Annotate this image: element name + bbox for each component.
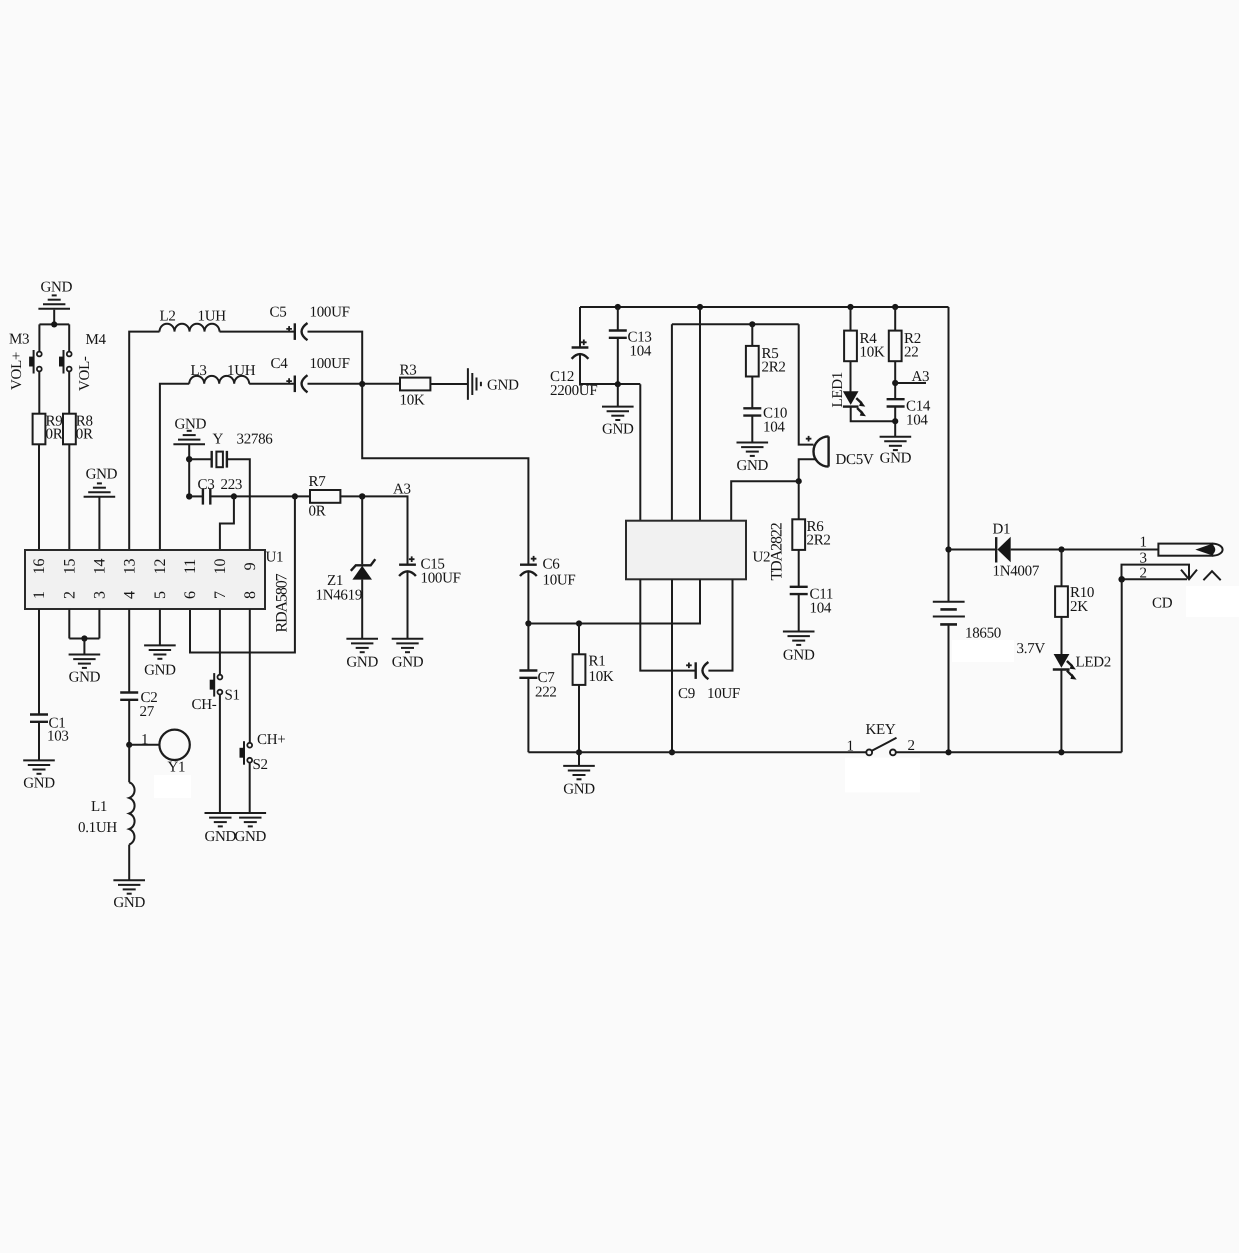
pushbutton S2 [240, 732, 286, 773]
svg-text:22: 22 [904, 345, 918, 361]
svg-text:100UF: 100UF [310, 305, 350, 321]
antenna Y1 [159, 730, 189, 776]
pin numbers top row [31, 559, 259, 575]
svg-text:10K: 10K [589, 669, 614, 685]
svg-text:2: 2 [908, 738, 915, 754]
wire R8 to pin15 [68, 444, 70, 550]
ground L1 [113, 880, 145, 911]
ground C1 [23, 760, 55, 791]
inductor L1 [78, 782, 135, 844]
resistor R6 [792, 519, 830, 550]
wire M3 to R9 [38, 372, 40, 414]
svg-text:2K: 2K [1070, 599, 1088, 615]
svg-text:A3: A3 [912, 369, 930, 385]
wire R10 to LED2 [1061, 617, 1063, 654]
node junction gnd/M3/M4 [51, 321, 57, 327]
node C13 top [615, 304, 621, 310]
wire DC5V minus pin down [799, 459, 817, 481]
svg-text:5: 5 [152, 591, 169, 599]
led LED1 [830, 372, 866, 416]
wire rail to R4 [850, 307, 852, 331]
wire gnd to M3/M4 tops [39, 310, 69, 352]
svg-text:100UF: 100UF [310, 356, 350, 372]
ground C11 [783, 632, 815, 664]
wire VCC top rail [580, 306, 949, 308]
svg-text:KEY: KEY [866, 722, 896, 738]
svg-text:2R2: 2R2 [807, 533, 831, 549]
wire S2 to ground [249, 763, 251, 813]
node C4/C5/R3 junction [359, 381, 365, 387]
node C13 bottom junction [615, 381, 621, 387]
ground above pin14 [84, 467, 118, 497]
wire R1 top feed [578, 624, 580, 655]
ground S2 [234, 813, 266, 845]
svg-text:CH+: CH+ [257, 732, 285, 748]
wire S1 to ground [219, 695, 221, 813]
capacitor C13 [609, 330, 652, 360]
led LED2 [1017, 641, 1111, 680]
capacitor C5 [270, 305, 350, 341]
svg-text:M3: M3 [9, 332, 29, 348]
svg-text:S1: S1 [225, 688, 240, 704]
svg-text:1UH: 1UH [198, 309, 227, 325]
pushbutton M4 [59, 332, 107, 391]
ground C13 [602, 407, 634, 438]
wire R2 to C14 [894, 361, 896, 399]
capacitor C12 [550, 340, 597, 400]
ground pin5 [144, 645, 176, 678]
svg-text:GND: GND [113, 895, 145, 911]
jack CD sleeve [1122, 565, 1221, 612]
wire C11 to ground [798, 594, 800, 631]
wire C3 to R7 line [210, 495, 310, 497]
svg-text:3: 3 [92, 591, 109, 599]
svg-text:2R2: 2R2 [762, 360, 786, 376]
wire C4 to node and R3 [308, 383, 401, 385]
node A3 stub junction [892, 380, 898, 386]
svg-text:104: 104 [763, 420, 785, 436]
zener Z1 1N4619 [316, 559, 376, 603]
svg-text:222: 222 [535, 685, 557, 701]
wire crystal to pin9 [227, 459, 250, 550]
node C6/C7 junction [525, 620, 531, 626]
svg-text:GND: GND [736, 458, 768, 474]
wire pin8 to S2 [249, 609, 251, 743]
svg-text:U2: U2 [753, 550, 771, 566]
node Z1 top junction [359, 493, 365, 499]
resistor R2 [889, 331, 921, 362]
wire audio node down to C6 column [362, 384, 528, 564]
svg-text:LED2: LED2 [1076, 655, 1111, 671]
connector DC5V [806, 436, 874, 468]
node bracket junction [292, 493, 298, 499]
svg-text:10: 10 [212, 559, 229, 575]
svg-text:C4: C4 [271, 356, 289, 372]
wire junction to ground [83, 639, 85, 655]
svg-text:RDA5807: RDA5807 [274, 573, 291, 632]
wire D1 anode feed [949, 549, 996, 551]
wire C5 to C4 output node [308, 332, 363, 384]
node R4 top [847, 304, 853, 310]
svg-text:VOL-: VOL- [77, 356, 93, 391]
wire junction to R10 [1061, 550, 1063, 587]
wire node to ground [578, 752, 580, 766]
svg-text:9: 9 [242, 562, 259, 570]
svg-text:GND: GND [234, 829, 266, 845]
svg-text:U1: U1 [266, 550, 284, 566]
svg-text:2: 2 [1140, 566, 1147, 582]
svg-text:L1: L1 [91, 799, 107, 815]
svg-text:GND: GND [69, 670, 101, 686]
svg-text:0R: 0R [76, 427, 93, 443]
svg-text:C3: C3 [198, 477, 215, 493]
pin numbers bottom row [31, 591, 259, 599]
capacitor C14 [887, 399, 931, 429]
svg-text:M4: M4 [86, 332, 107, 348]
ground S1 [204, 813, 236, 845]
wire pin14 gnd stem [98, 498, 100, 551]
svg-text:0R: 0R [46, 427, 63, 443]
wire pin6 bracket [190, 496, 295, 652]
wire C9 right to TDA pin [708, 579, 732, 670]
node R1 top [576, 620, 582, 626]
svg-text:13: 13 [121, 559, 138, 575]
svg-text:GND: GND [880, 451, 912, 467]
wire D1 to jack pin1 [1011, 549, 1159, 551]
svg-text:GND: GND [346, 655, 378, 671]
wire C1 to ground [38, 722, 40, 761]
svg-text:1: 1 [1140, 535, 1147, 551]
wire L3 to C4 [249, 383, 295, 385]
svg-text:15: 15 [62, 559, 79, 575]
capacitor C15 [399, 556, 461, 586]
capacitor C7 [519, 670, 556, 701]
node R1 bottom [576, 749, 582, 755]
svg-text:10K: 10K [400, 393, 425, 409]
ground C14 [880, 437, 912, 467]
wire L2 to C5 [220, 331, 295, 333]
svg-text:2200UF: 2200UF [550, 383, 597, 399]
net label A3 stub [895, 382, 926, 384]
svg-text:100UF: 100UF [421, 571, 461, 587]
svg-text:GND: GND [204, 829, 236, 845]
IC U2 TDA2822 box [626, 521, 786, 581]
node TDA pin top [697, 304, 703, 310]
svg-text:10K: 10K [860, 345, 885, 361]
svg-text:D1: D1 [993, 522, 1011, 538]
wire bus corner down to TDA pin [639, 384, 641, 521]
svg-text:GND: GND [563, 782, 595, 798]
resistor R1 [573, 654, 614, 686]
node LED1/C14 junction [892, 418, 898, 424]
svg-text:GND: GND [23, 776, 55, 792]
ground C15 [392, 639, 424, 671]
white patch under 18650 [952, 640, 1014, 662]
wire M4 to R8 [68, 372, 70, 414]
svg-text:104: 104 [630, 344, 652, 360]
svg-text:1N4619: 1N4619 [316, 588, 363, 604]
svg-text:C6: C6 [543, 557, 561, 573]
inductor L2 [160, 309, 227, 332]
svg-text:27: 27 [140, 704, 155, 720]
wire pin7 to S1 [219, 609, 221, 675]
svg-text:10UF: 10UF [707, 686, 740, 702]
wire R6 to C11 [798, 550, 800, 586]
capacitor C4 [271, 356, 350, 392]
svg-text:L3: L3 [191, 363, 207, 379]
wire node to C3 [189, 495, 203, 497]
svg-text:CD: CD [1152, 596, 1173, 612]
svg-text:0.1UH: 0.1UH [78, 820, 117, 836]
resistor R5 [746, 346, 786, 377]
resistor R9 [33, 414, 63, 445]
node battery bottom [945, 749, 951, 755]
wire rail to R2 [894, 307, 896, 331]
node pin2/3 junction [81, 635, 87, 641]
capacitor C9 [678, 662, 740, 702]
wire pin13 up and L2 feed [129, 332, 159, 550]
svg-text:GND: GND [86, 467, 118, 483]
capacitor C6 [520, 556, 575, 589]
wire pin5 to ground [159, 609, 161, 645]
svg-text:11: 11 [182, 559, 199, 574]
svg-text:GND: GND [487, 378, 519, 394]
svg-text:C9: C9 [678, 686, 695, 702]
wire C3 node jog to pin10 [220, 496, 234, 550]
wire R5 to C10 [751, 377, 753, 408]
svg-text:16: 16 [31, 559, 48, 575]
svg-text:GND: GND [602, 422, 634, 438]
svg-text:C5: C5 [270, 305, 287, 321]
wire C2 to Y1 node [128, 700, 130, 745]
svg-text:GND: GND [41, 280, 73, 296]
svg-text:A3: A3 [393, 482, 411, 498]
node C3 right junction [231, 493, 237, 499]
wire TDA top pin from rail [699, 307, 701, 521]
wire pin2/pin3 join [69, 609, 99, 639]
ground Z1 [346, 639, 378, 671]
resistor R7 [309, 474, 341, 520]
wire R1 to bottom rail [578, 685, 580, 752]
wire C15 to ground [407, 572, 409, 639]
svg-text:L2: L2 [160, 309, 176, 325]
wire junction to R6 [798, 481, 800, 519]
svg-text:R3: R3 [400, 363, 417, 379]
wire junction to C7 [527, 624, 529, 671]
ground GND top-left [38, 280, 72, 309]
wire C13 to lower bus [617, 338, 619, 384]
wire junction to TDA pin [731, 481, 799, 521]
wire C7 to bottom rail [527, 678, 529, 753]
wire to DC5V plus pin [799, 324, 814, 444]
pushbutton S1 [192, 673, 240, 713]
svg-text:VOL+: VOL+ [9, 352, 25, 390]
capacitor C10 [743, 406, 787, 436]
wire node to L1 [128, 745, 130, 783]
wire pin4 to C2 [128, 609, 130, 692]
white patch right of Y1 [154, 775, 191, 798]
jack CD tip [1158, 544, 1222, 556]
svg-text:GND: GND [144, 663, 176, 679]
wire LED2 to bottom rail [1060, 670, 1062, 753]
capacitor C2 [120, 690, 157, 720]
svg-text:2: 2 [62, 591, 79, 599]
switch KEY [847, 722, 915, 755]
svg-text:4: 4 [121, 591, 138, 599]
resistor R10 [1055, 585, 1094, 617]
wire C6 to lower junction [527, 572, 529, 624]
svg-text:CH-: CH- [192, 697, 217, 713]
IC U1 RDA5807 box [25, 550, 291, 633]
wire node to Y1 [129, 744, 159, 746]
wire node to crystal [189, 458, 212, 460]
wire battery to bottom rail [948, 624, 950, 752]
node Y1 junction [126, 742, 132, 748]
node R10 top junction [1058, 546, 1064, 552]
svg-text:TDA2822: TDA2822 [769, 522, 786, 580]
svg-text:10UF: 10UF [543, 573, 576, 589]
svg-text:0R: 0R [309, 504, 326, 520]
node crystal left junction [186, 456, 192, 462]
node LED2 bottom [1058, 749, 1064, 755]
capacitor C3 [198, 477, 243, 505]
capacitor C11 [790, 587, 833, 617]
svg-text:GND: GND [392, 655, 424, 671]
ground sideways at R3 [468, 368, 519, 400]
svg-text:R7: R7 [309, 474, 327, 490]
wire C14 to ground [894, 407, 896, 437]
svg-text:14: 14 [92, 559, 109, 575]
svg-text:1N4007: 1N4007 [993, 564, 1040, 580]
wire jack sleeve to bottom rail [1121, 579, 1123, 752]
svg-text:8: 8 [242, 591, 259, 599]
svg-text:R1: R1 [589, 654, 606, 670]
wire C12 to lower bus [580, 354, 640, 384]
svg-text:103: 103 [47, 729, 69, 745]
svg-text:12: 12 [152, 559, 169, 575]
wire node down to Z1 [361, 496, 363, 564]
svg-text:Y1: Y1 [168, 760, 186, 776]
wire R4 to LED1 [850, 361, 852, 391]
pushbutton M3 [9, 332, 42, 391]
svg-text:3.7V: 3.7V [1017, 641, 1046, 657]
resistor R3 [400, 363, 431, 409]
svg-text:7: 7 [212, 591, 229, 599]
svg-text:6: 6 [182, 591, 199, 599]
node R6 top junction [796, 478, 802, 484]
node R2 top [892, 304, 898, 310]
wire bottom rail [528, 751, 1121, 753]
wire gnd stem to crystal node [188, 445, 190, 459]
svg-text:104: 104 [906, 413, 928, 429]
wire TDA bottom pin to C9 left [640, 579, 695, 670]
resistor R4 [844, 331, 885, 362]
svg-text:1UH: 1UH [227, 363, 256, 379]
node R5 top [749, 321, 755, 327]
svg-text:32786: 32786 [237, 432, 274, 448]
wire rail to C12 [579, 307, 581, 347]
wire crystal node down to C3 [188, 459, 190, 496]
wire Z1 to ground [361, 580, 363, 639]
node jack sleeve junction [1118, 576, 1125, 583]
ground pins 2-3 [69, 655, 101, 686]
ground C10 [736, 443, 768, 475]
wire node to R5 [751, 324, 753, 346]
ground above crystal [173, 417, 206, 445]
svg-text:S2: S2 [253, 757, 268, 773]
wire R3 to ground [430, 383, 468, 385]
svg-text:104: 104 [810, 601, 832, 617]
svg-text:GND: GND [175, 417, 207, 433]
capacitor C1 [30, 715, 69, 745]
battery 18650 [933, 602, 1001, 642]
wire junction to ground [617, 384, 619, 406]
svg-text:1: 1 [847, 739, 854, 755]
node TDA gnd pin on rail [669, 749, 675, 755]
wire rail to C13 [617, 307, 619, 330]
wire VCC rail right corner down [948, 307, 950, 601]
resistor R8 [63, 414, 93, 445]
white patch under KEY [845, 758, 920, 793]
wire pin1 to C1 [38, 609, 40, 714]
svg-text:18650: 18650 [965, 626, 1001, 642]
wire R7 to A3 corner [340, 496, 407, 563]
svg-text:GND: GND [783, 648, 815, 664]
ground R1 [563, 766, 595, 798]
wire LED1 to C14 bottom junction [851, 407, 896, 422]
node C3 left junction [186, 493, 192, 499]
wire L1 to ground [128, 845, 130, 881]
wire C10 to ground [751, 416, 753, 443]
svg-text:Y: Y [213, 432, 224, 448]
wire R9 to pin16 [38, 444, 40, 550]
inductor L3 [189, 363, 256, 384]
crystal Y 32786 [212, 432, 274, 468]
svg-text:223: 223 [221, 477, 243, 493]
white patch right of CD [1186, 586, 1239, 617]
wire junction line to TDA pin [528, 579, 700, 623]
diode D1 1N4007 [993, 522, 1040, 580]
svg-text:1: 1 [31, 591, 48, 599]
svg-text:DC5V: DC5V [836, 452, 874, 468]
svg-text:LED1: LED1 [830, 372, 846, 407]
wire TDA bottom pin to rail [671, 579, 673, 752]
node D1 anode junction [945, 546, 951, 552]
wire pin12 up and L3 feed [160, 384, 189, 550]
wire R5 feed line [672, 324, 799, 520]
